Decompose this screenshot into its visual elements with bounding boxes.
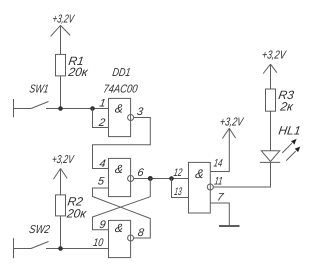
svg-text:10: 10: [92, 237, 104, 249]
switch SW2: [14, 224, 51, 258]
power +3.2V right arrow: [263, 64, 277, 73]
power +3.2V top-left arrow: [51, 25, 71, 36]
label R3 value: [278, 88, 296, 113]
svg-text:8: 8: [137, 227, 146, 239]
op-amp U1 gate 1 NAND 74AC00: [109, 98, 134, 136]
wire: [270, 64, 272, 89]
svg-text:2к: 2к: [279, 100, 296, 114]
svg-text:7: 7: [216, 192, 225, 204]
svg-text:&: &: [114, 162, 124, 176]
LED HL1: [260, 139, 301, 163]
node junction SW1/R1: [58, 106, 63, 111]
wire: [60, 169, 62, 195]
resistor R1: [56, 54, 66, 76]
svg-text:11: 11: [214, 176, 224, 188]
ground: [219, 225, 240, 227]
label R2 value: [65, 195, 88, 221]
svg-text:74AC00: 74AC00: [103, 84, 139, 96]
node junction pin 12/13 branch: [169, 176, 174, 181]
wire LED to pin 11: [213, 162, 270, 187]
node junction SW2/R2: [58, 246, 63, 251]
svg-text:3: 3: [136, 106, 145, 118]
svg-text:13: 13: [173, 186, 183, 198]
power +3.2V middle arrow: [222, 128, 235, 138]
op-amp U1 gate 2 NAND: [109, 158, 134, 196]
svg-text:+3,2V: +3,2V: [261, 50, 287, 62]
wire: [60, 216, 62, 249]
svg-text:+3,2V: +3,2V: [52, 14, 76, 26]
wire branch to pin 13: [172, 179, 189, 198]
svg-text:+3,2V: +3,2V: [219, 116, 245, 128]
wire pin 3 to pin 4: [93, 118, 151, 169]
svg-text:HL1: HL1: [278, 124, 302, 138]
resistor R3: [266, 89, 276, 111]
svg-text:20к: 20к: [67, 65, 90, 79]
svg-text:&: &: [114, 221, 124, 235]
svg-text:5: 5: [97, 175, 106, 187]
wire pin 6 cross-couple to pin 9: [93, 179, 151, 230]
svg-text:SW2: SW2: [28, 224, 51, 236]
svg-text:&: &: [114, 101, 124, 115]
wire branch to pin 2: [93, 109, 109, 128]
resistor R2: [56, 195, 66, 216]
svg-text:DD1: DD1: [112, 67, 132, 79]
svg-text:SW1: SW1: [29, 84, 50, 96]
switch SW1: [14, 84, 50, 118]
op-amp U1 gate 4 NAND: [189, 162, 214, 213]
svg-text:2: 2: [97, 117, 106, 129]
wire SW1 to gate pin 1: [46, 108, 109, 110]
op-amp U1 gate 3 NAND: [109, 220, 134, 257]
svg-text:6: 6: [137, 167, 146, 179]
power +3.2V lower-left arrow: [54, 169, 68, 180]
svg-text:9: 9: [99, 219, 107, 231]
wire pin 14 to +3.2V: [210, 128, 229, 171]
wire pin 7 to ground: [210, 203, 229, 225]
wire: [60, 25, 62, 54]
node junction pin 6: [148, 176, 153, 181]
svg-text:+3,2V: +3,2V: [51, 154, 75, 166]
svg-text:&: &: [194, 167, 204, 181]
label R1 value: [67, 54, 90, 79]
svg-text:1: 1: [99, 97, 107, 109]
wire: [60, 76, 62, 109]
wire: [270, 111, 272, 151]
svg-text:14: 14: [213, 158, 223, 170]
node junction pin1/pin2 branch: [90, 106, 95, 111]
svg-text:20к: 20к: [65, 207, 88, 221]
wire SW2 to gate pin 10: [46, 248, 109, 250]
svg-text:12: 12: [173, 167, 183, 179]
svg-text:4: 4: [99, 158, 107, 170]
wire pin 5 cross-couple to pin 8: [93, 188, 151, 238]
wire pin 6 to pin 12: [134, 178, 189, 180]
